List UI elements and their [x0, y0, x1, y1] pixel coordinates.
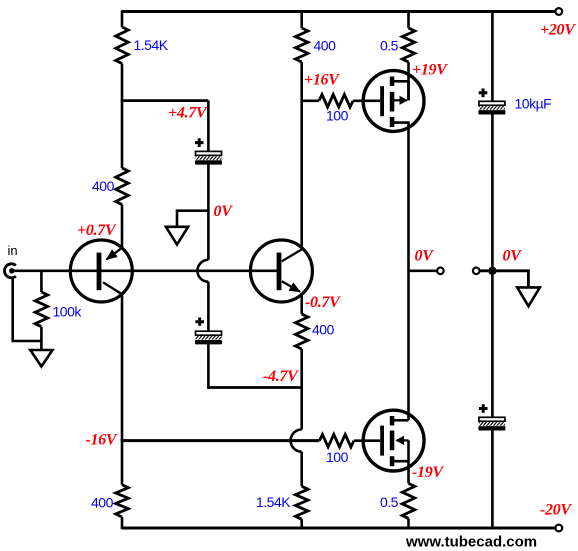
svg-text:0.5: 0.5	[380, 38, 399, 54]
mosfet M1 body arrow	[394, 99, 407, 101]
mosfet M2 circle	[363, 410, 424, 471]
output node wire to terminal	[409, 269, 437, 272]
mosfet M1 drain connector	[393, 80, 409, 83]
resistor 400 middle	[295, 314, 308, 349]
svg-text:100: 100	[326, 449, 349, 465]
mosfet M2 source vertical	[407, 440, 410, 483]
svg-text:+19V: +19V	[412, 62, 448, 79]
wire 100k stubs	[40, 271, 43, 350]
svg-text:1.54K: 1.54K	[134, 37, 169, 53]
wire -4.7V connector	[207, 386, 303, 389]
svg-text:0V: 0V	[415, 248, 435, 265]
wire 0.5 bottom to rail	[407, 519, 410, 530]
resistor 0.5 bottom	[402, 483, 415, 518]
terminal -20V	[555, 525, 562, 532]
wire hop over base wire	[197, 260, 208, 282]
terminal output left	[437, 268, 444, 275]
mosfet M1 source connector	[393, 123, 409, 271]
wire input shield down	[13, 277, 42, 341]
wire left rail lower	[121, 294, 124, 529]
svg-text:-16V: -16V	[86, 432, 118, 449]
wire cap rail x492.4	[491, 10, 494, 529]
svg-text:+0.7V: +0.7V	[77, 222, 117, 239]
transistor Q1 PNP circle	[70, 240, 132, 302]
svg-text:400: 400	[92, 178, 115, 194]
wire left rail upper	[121, 10, 124, 248]
resistor 400 top-middle	[295, 28, 308, 62]
resistor 100 top	[319, 95, 353, 108]
wire top rail	[122, 10, 555, 13]
svg-text:+4.7V: +4.7V	[168, 105, 208, 122]
svg-text:10kµF: 10kµF	[515, 96, 552, 112]
ground G1 mid	[166, 211, 209, 245]
input jack dot	[9, 268, 14, 273]
transistor Q2 emitter with arrow	[282, 281, 300, 292]
svg-text:100k: 100k	[53, 304, 83, 320]
svg-text:400: 400	[312, 322, 335, 338]
wire mid rail x302 top	[300, 10, 303, 249]
terminal +20V	[555, 8, 562, 15]
capacitor C2 mid-bottom plus	[195, 318, 204, 326]
resistor 1.54K top-left	[116, 27, 129, 64]
svg-text:-19V: -19V	[412, 464, 444, 481]
ground G2 input	[30, 350, 52, 367]
mosfet M2 channel bars	[390, 416, 395, 426]
mosfet M1 drain vertical	[407, 81, 410, 100]
junction dot	[488, 267, 496, 275]
svg-text:-20V: -20V	[540, 502, 572, 519]
svg-text:-0.7V: -0.7V	[305, 294, 341, 311]
capacitor C1 mid-top plus	[195, 138, 204, 147]
svg-text:+16V: +16V	[304, 72, 340, 89]
svg-text:www.tubecad.com: www.tubecad.com	[405, 534, 537, 551]
transistor Q2 base bar	[277, 253, 282, 291]
wire bottom rail	[122, 527, 555, 530]
resistor 400 bottom-left	[116, 485, 129, 517]
svg-text:400: 400	[91, 495, 114, 511]
svg-text:400: 400	[314, 38, 337, 54]
input jack	[4, 264, 15, 278]
capacitor C4 plus	[479, 404, 488, 413]
capacitor C3 10kuF	[478, 101, 505, 114]
svg-text:1.54K: 1.54K	[256, 494, 291, 510]
transistor Q2 NPN circle	[250, 240, 312, 302]
mosfet M1 gate bar	[380, 86, 384, 116]
terminal output right	[473, 268, 480, 275]
capacitor C1 mid-top	[195, 151, 222, 164]
svg-text:+20V: +20V	[540, 22, 576, 39]
mosfet M2 source connector	[393, 460, 409, 463]
wire hop over -16V wire	[291, 430, 302, 452]
resistor 100k	[35, 292, 48, 327]
wire -16V from left rail	[121, 439, 320, 442]
wire terminal to cap rail	[480, 271, 529, 288]
mosfet M1 channel bars	[390, 77, 395, 87]
svg-text:-4.7V: -4.7V	[263, 368, 299, 385]
svg-text:in: in	[8, 243, 18, 258]
resistor 400 upper-left	[116, 168, 129, 205]
wire mid rail x208	[207, 101, 210, 388]
wire gate branch top	[302, 100, 381, 103]
mosfet M2 drain connector	[393, 419, 409, 422]
mosfet M2 gate bar	[380, 426, 384, 456]
transistor Q2 collector	[282, 249, 303, 262]
wire mid rail x302 below Q2	[300, 293, 303, 529]
mosfet M2 body arrow	[397, 439, 409, 441]
capacitor C3 plus	[479, 89, 488, 98]
svg-text:100: 100	[326, 108, 349, 124]
transistor Q1 emitter with arrow	[107, 248, 123, 260]
ground G3 output	[517, 287, 540, 306]
transistor Q1 base bar	[97, 253, 102, 291]
wire +4.7V branch	[121, 99, 209, 102]
wire input to bases	[13, 269, 278, 272]
mosfet M1 circle	[363, 71, 424, 132]
mosfet M2 drain vertical from output	[407, 271, 410, 420]
capacitor C2 mid-bottom	[195, 331, 222, 344]
svg-text:0V: 0V	[503, 248, 523, 265]
capacitor C4	[478, 417, 505, 430]
resistor 0.5 top	[402, 28, 415, 62]
transistor Q1 collector	[103, 282, 122, 294]
resistor 1.54K bottom-middle	[295, 486, 308, 519]
wire gate branch bottom	[354, 439, 380, 442]
svg-text:0V: 0V	[214, 203, 234, 220]
resistor 100 bottom	[319, 434, 354, 447]
svg-text:0.5: 0.5	[380, 494, 399, 510]
wire drain rail x408.5 top	[407, 10, 410, 100]
